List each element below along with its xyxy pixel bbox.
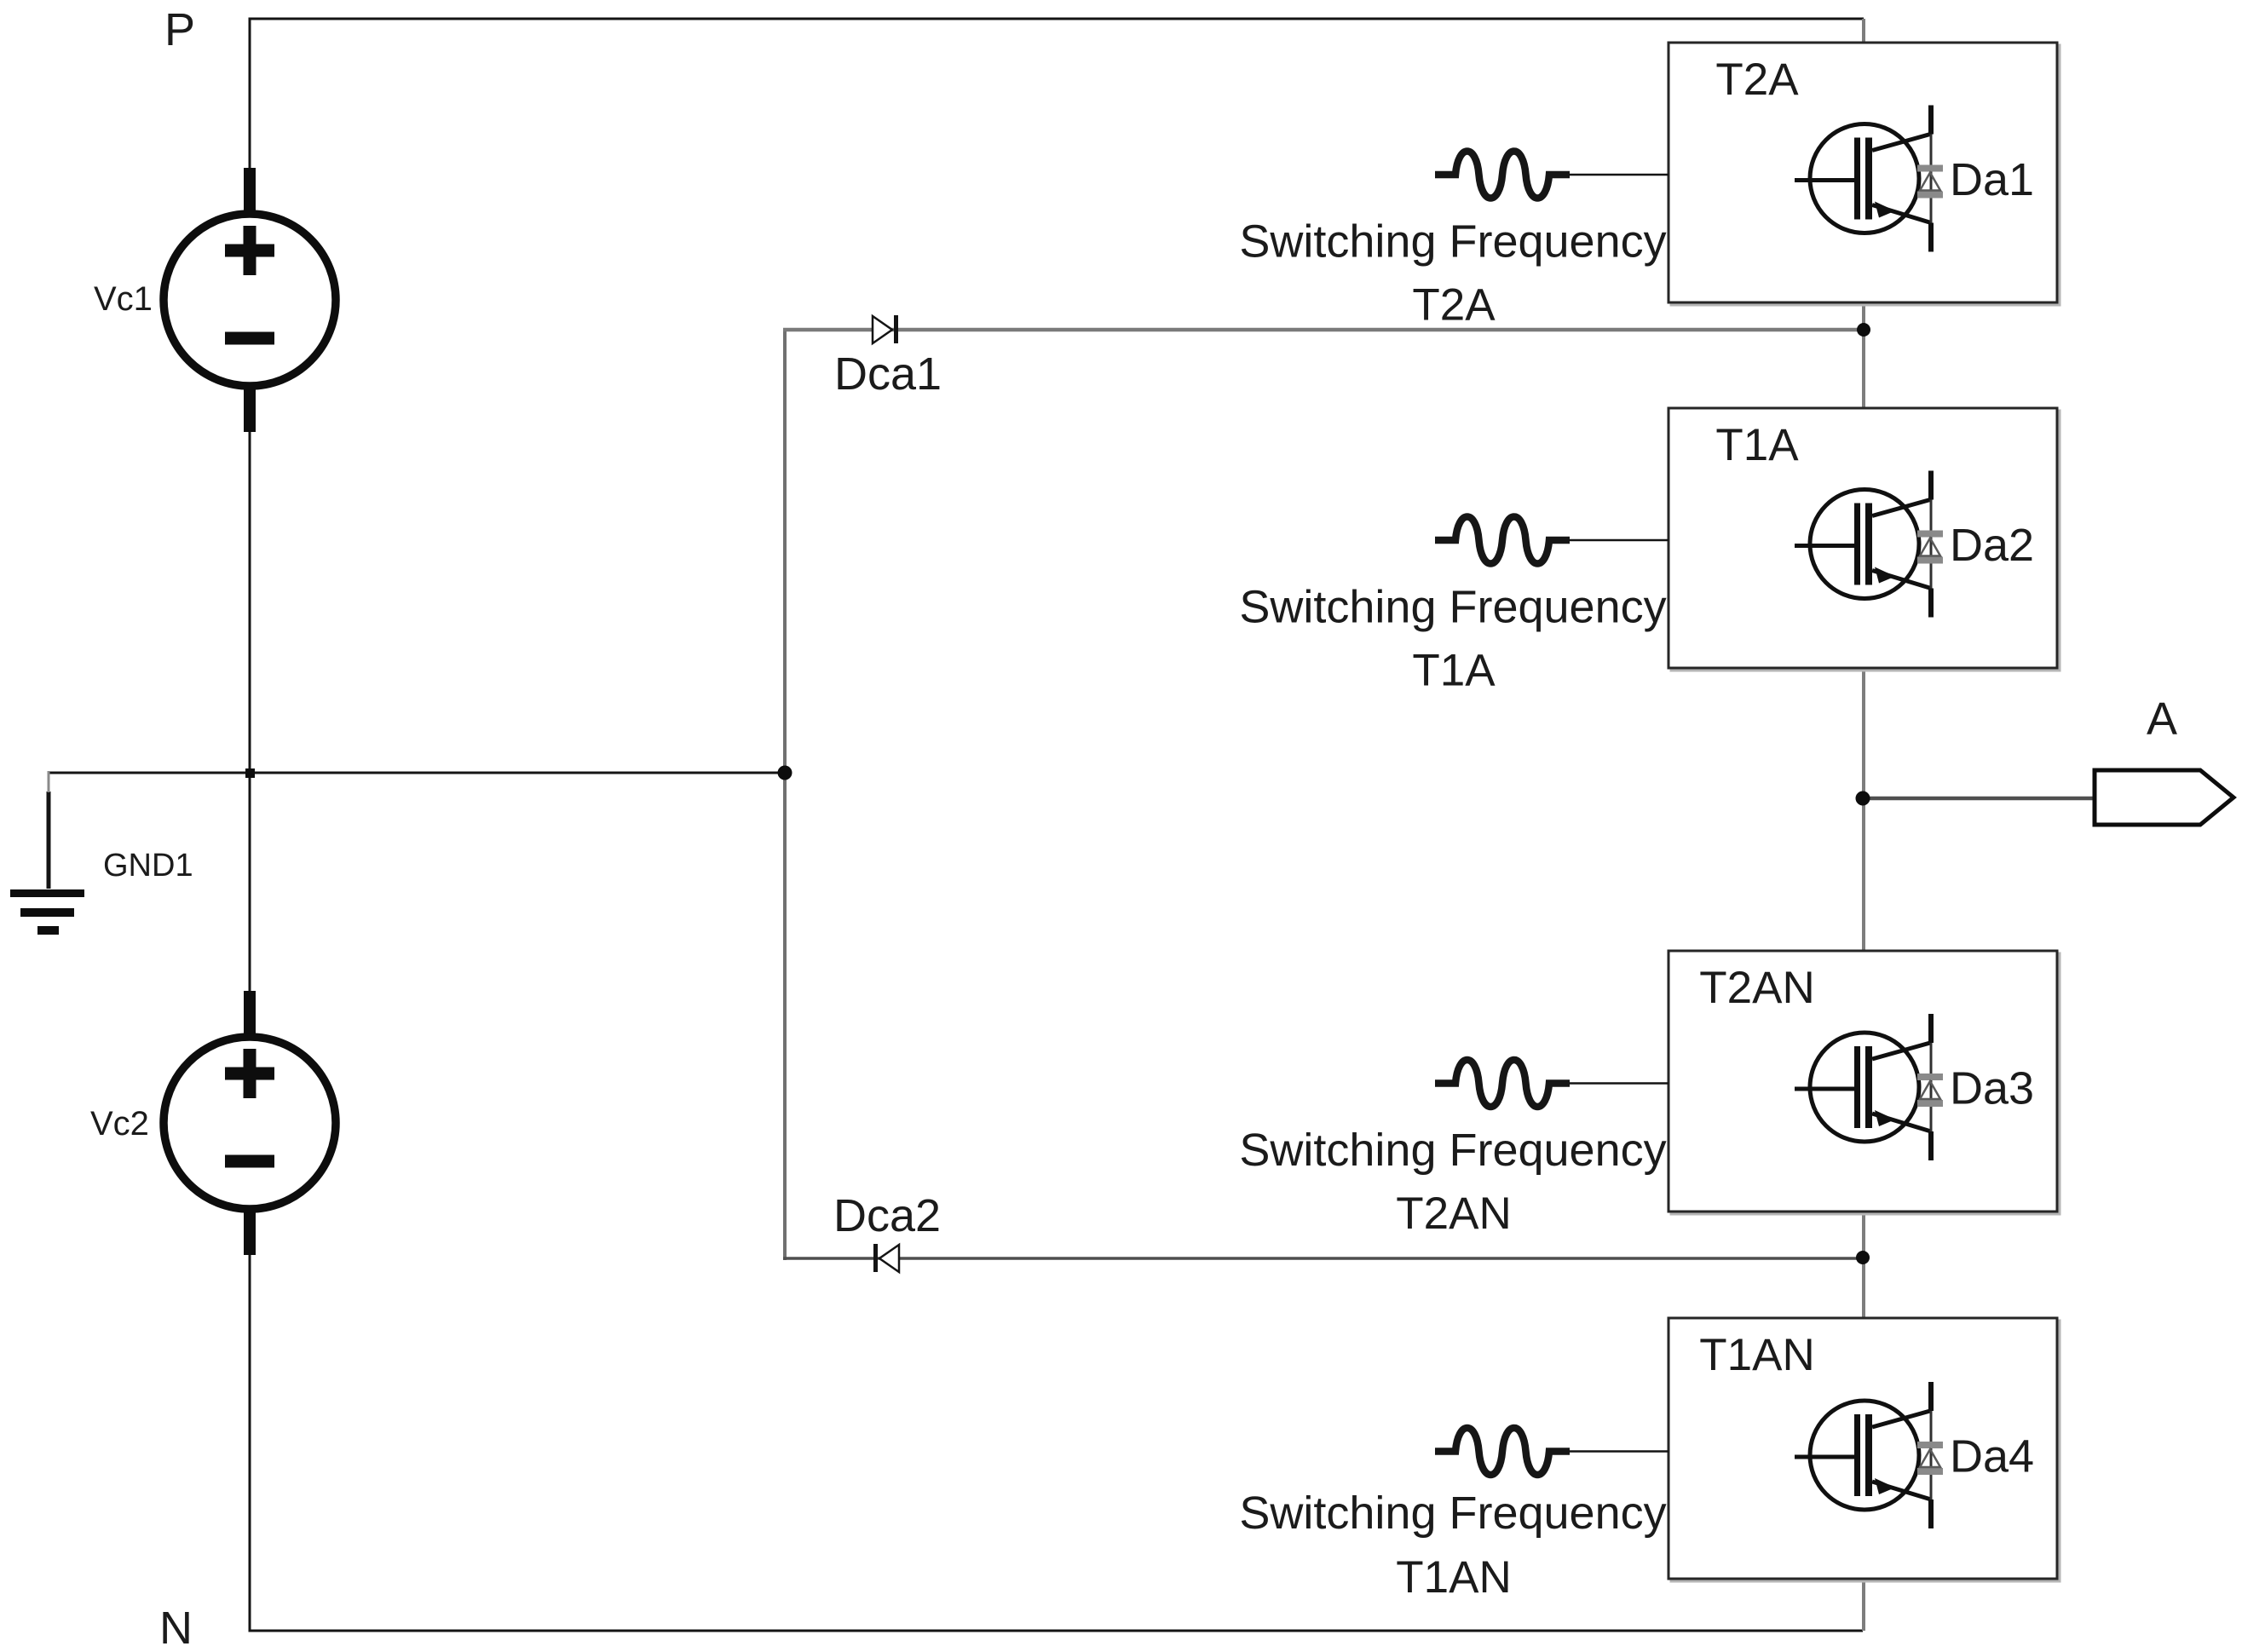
svg-text:Dca1: Dca1 <box>834 348 942 400</box>
svg-text:A: A <box>2147 694 2177 745</box>
svg-text:T1A: T1A <box>1715 420 1799 470</box>
svg-text:Vc2: Vc2 <box>90 1105 149 1143</box>
svg-text:T2AN: T2AN <box>1396 1189 1511 1239</box>
svg-text:T2A: T2A <box>1715 55 1799 105</box>
svg-text:T1AN: T1AN <box>1699 1330 1814 1380</box>
svg-text:Da3: Da3 <box>1950 1063 2034 1114</box>
svg-text:Dca2: Dca2 <box>833 1190 941 1241</box>
svg-text:GND1: GND1 <box>103 848 193 884</box>
svg-text:Da2: Da2 <box>1950 520 2034 571</box>
svg-text:N: N <box>159 1603 193 1652</box>
svg-text:Da1: Da1 <box>1950 154 2034 205</box>
svg-text:Switching Frequency: Switching Frequency <box>1239 582 1666 633</box>
svg-text:T2AN: T2AN <box>1699 963 1814 1013</box>
svg-text:T2A: T2A <box>1412 280 1496 331</box>
svg-text:T1AN: T1AN <box>1396 1552 1511 1603</box>
svg-text:T1A: T1A <box>1412 646 1496 696</box>
svg-text:Switching Frequency: Switching Frequency <box>1239 1125 1666 1176</box>
svg-text:P: P <box>164 4 195 55</box>
svg-text:Vc1: Vc1 <box>94 280 153 318</box>
svg-text:Da4: Da4 <box>1950 1431 2034 1482</box>
svg-text:Switching Frequency: Switching Frequency <box>1239 216 1666 268</box>
svg-text:Switching Frequency: Switching Frequency <box>1239 1488 1666 1539</box>
